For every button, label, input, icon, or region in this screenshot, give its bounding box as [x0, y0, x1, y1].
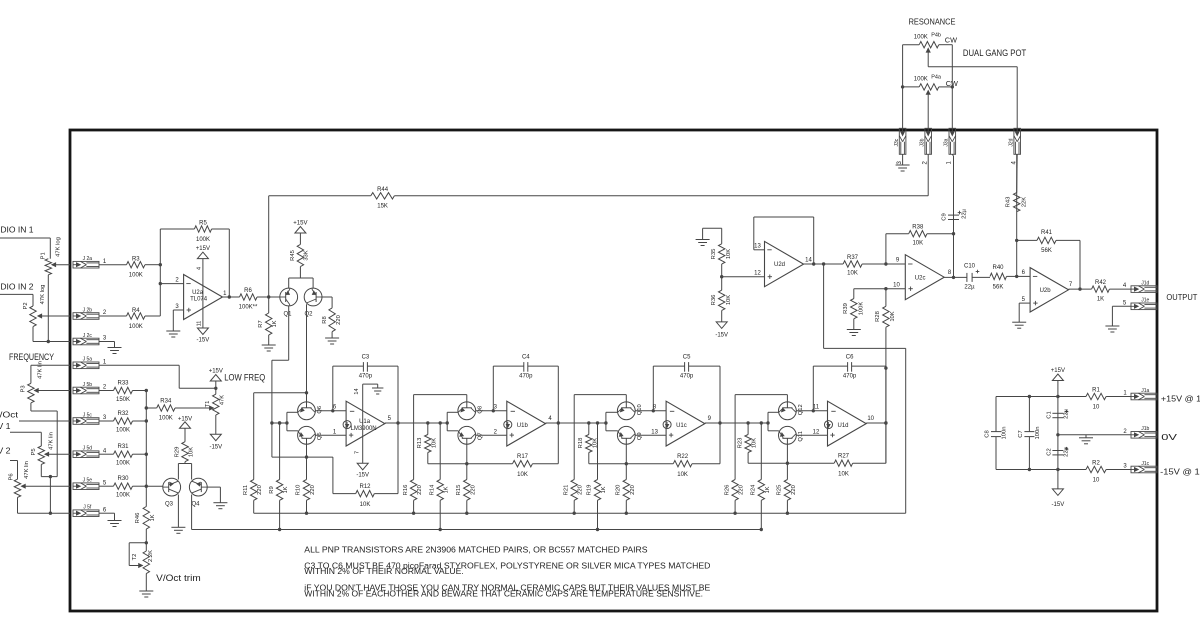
svg-text:10K: 10K: [838, 472, 849, 478]
svg-text:R39: R39: [843, 303, 849, 314]
svg-text:Q9: Q9: [637, 432, 643, 440]
svg-text:R8: R8: [322, 316, 328, 323]
svg-text:R32: R32: [117, 411, 129, 417]
svg-text:14: 14: [805, 258, 812, 264]
svg-text:C1: C1: [1046, 411, 1052, 418]
svg-text:U2d: U2d: [774, 262, 785, 268]
svg-text:C8: C8: [985, 430, 991, 437]
svg-text:Q11: Q11: [798, 431, 804, 442]
svg-text:10K: 10K: [517, 472, 528, 478]
svg-text:220: 220: [791, 485, 797, 495]
svg-text:1K: 1K: [765, 486, 771, 493]
svg-text:P5: P5: [31, 448, 37, 455]
svg-text:R42: R42: [1095, 280, 1107, 286]
svg-text:4: 4: [196, 267, 202, 270]
svg-text:10K: 10K: [431, 438, 437, 448]
svg-text:R25: R25: [777, 485, 783, 496]
svg-text:Q8: Q8: [477, 406, 483, 414]
svg-text:10: 10: [893, 282, 900, 288]
svg-text:470p: 470p: [519, 373, 533, 379]
svg-text:22µ: 22µ: [1063, 408, 1069, 418]
svg-text:100n: 100n: [1035, 427, 1041, 440]
svg-text:220: 220: [578, 485, 584, 495]
svg-text:R16: R16: [403, 485, 409, 496]
svg-text:U1a: U1a: [359, 419, 371, 425]
svg-text:10K: 10K: [677, 472, 688, 478]
svg-text:R29: R29: [175, 447, 181, 458]
svg-text:C3: C3: [362, 354, 370, 360]
svg-text:Q4: Q4: [191, 501, 200, 507]
svg-text:Q2: Q2: [304, 311, 313, 317]
svg-text:P4b: P4b: [931, 33, 941, 39]
svg-text:J 5e: J 5e: [83, 478, 93, 484]
svg-text:AUDIO IN 1: AUDIO IN 1: [0, 225, 34, 235]
svg-text:-15V: -15V: [356, 473, 369, 479]
svg-text:R31: R31: [117, 444, 129, 450]
svg-text:220: 220: [470, 485, 476, 495]
svg-text:J 5c: J 5c: [83, 412, 93, 418]
svg-text:J2d: J2d: [1009, 138, 1015, 146]
svg-text:R23: R23: [737, 438, 743, 449]
svg-text:470p: 470p: [359, 373, 373, 379]
svg-text:U2b: U2b: [1040, 288, 1052, 294]
svg-text:R45: R45: [290, 250, 296, 261]
svg-text:10K: 10K: [189, 447, 195, 457]
svg-text:1K: 1K: [283, 486, 289, 493]
svg-text:2.2K: 2.2K: [148, 550, 154, 562]
svg-text:22µ: 22µ: [962, 208, 968, 218]
svg-text:1K: 1K: [150, 514, 156, 521]
svg-text:J1a: J1a: [1141, 388, 1149, 394]
svg-text:1K: 1K: [1097, 297, 1104, 303]
svg-text:AUDIO IN 2: AUDIO IN 2: [0, 282, 34, 292]
svg-text:R38: R38: [912, 225, 924, 231]
svg-text:J 2b: J 2b: [83, 307, 93, 313]
svg-text:J1d: J1d: [1141, 281, 1149, 287]
svg-text:C9: C9: [942, 213, 948, 220]
svg-text:22K: 22K: [1022, 197, 1028, 207]
svg-text:Q6: Q6: [317, 406, 323, 414]
svg-text:OUTPUT: OUTPUT: [1166, 292, 1197, 302]
svg-text:100K: 100K: [129, 273, 143, 279]
svg-text:R2: R2: [1092, 461, 1100, 467]
svg-text:J 5a: J 5a: [83, 357, 93, 363]
svg-text:220: 220: [739, 485, 745, 495]
svg-text:100K**: 100K**: [239, 305, 258, 311]
svg-text:U1b: U1b: [517, 423, 529, 429]
svg-text:10K: 10K: [890, 311, 896, 321]
svg-text:J 5d: J 5d: [83, 446, 93, 452]
svg-text:Q3: Q3: [165, 501, 174, 507]
svg-text:100K: 100K: [116, 461, 130, 467]
svg-text:150K: 150K: [116, 397, 130, 403]
svg-text:13: 13: [651, 430, 658, 436]
svg-text:R11: R11: [243, 485, 249, 495]
svg-text:J3a: J3a: [944, 138, 950, 146]
svg-text:-15V: -15V: [209, 445, 222, 451]
svg-text:R3: R3: [132, 257, 140, 263]
svg-text:220: 220: [310, 485, 316, 495]
svg-text:ALL PNP TRANSISTORS ARE 2N3906: ALL PNP TRANSISTORS ARE 2N3906 MATCHED P…: [304, 546, 647, 555]
svg-text:J 5f: J 5f: [83, 505, 92, 511]
svg-text:P2: P2: [23, 302, 29, 309]
svg-text:100K: 100K: [116, 428, 130, 434]
svg-text:15K: 15K: [377, 203, 388, 209]
svg-text:10K: 10K: [360, 502, 371, 508]
svg-text:R7: R7: [258, 320, 264, 327]
svg-text:100K: 100K: [914, 35, 928, 41]
svg-text:13: 13: [754, 244, 761, 250]
svg-text:C2: C2: [1046, 448, 1052, 455]
svg-text:J 5b: J 5b: [83, 382, 93, 388]
svg-text:R44: R44: [377, 187, 389, 193]
svg-text:100K: 100K: [116, 493, 130, 499]
svg-text:R1: R1: [1092, 388, 1100, 394]
svg-text:R13: R13: [417, 438, 423, 449]
svg-text:+15V @ 15mA: +15V @ 15mA: [1161, 394, 1200, 404]
svg-text:56K: 56K: [993, 284, 1004, 290]
svg-text:J3b: J3b: [920, 138, 926, 146]
svg-text:Q1: Q1: [283, 311, 292, 317]
svg-text:1K: 1K: [272, 320, 278, 327]
svg-text:C10: C10: [964, 263, 976, 269]
svg-text:47K lin: 47K lin: [24, 461, 30, 479]
svg-text:TL074: TL074: [190, 297, 208, 303]
svg-text:100K: 100K: [196, 237, 210, 243]
svg-text:C5: C5: [683, 354, 691, 360]
svg-text:-15V @ 15mA: -15V @ 15mA: [1160, 467, 1200, 477]
svg-text:11: 11: [813, 405, 820, 411]
svg-text:47K: 47K: [220, 395, 226, 405]
svg-text:P6: P6: [8, 473, 14, 480]
svg-text:56K: 56K: [1041, 248, 1052, 254]
svg-text:22µ: 22µ: [1063, 446, 1069, 456]
svg-text:R40: R40: [992, 265, 1004, 271]
svg-text:220: 220: [336, 315, 342, 325]
svg-text:12: 12: [813, 430, 820, 436]
svg-text:CW: CW: [945, 36, 957, 45]
svg-text:-15V: -15V: [197, 338, 210, 344]
svg-text:P1: P1: [40, 252, 46, 259]
svg-text:FREQUENCY: FREQUENCY: [9, 352, 54, 362]
svg-text:10K: 10K: [592, 438, 598, 448]
svg-text:R20: R20: [616, 485, 622, 496]
svg-text:R35: R35: [711, 249, 717, 260]
svg-text:R43: R43: [1006, 197, 1012, 208]
svg-text:P4a: P4a: [931, 75, 942, 81]
svg-text:P3: P3: [21, 385, 27, 392]
svg-text:WITHIN 2% OF THEIR NORMAL VALU: WITHIN 2% OF THEIR NORMAL VALUE.: [304, 567, 464, 576]
svg-text:470p: 470p: [680, 373, 694, 379]
svg-text:47K log: 47K log: [40, 285, 46, 305]
svg-text:U1c: U1c: [676, 423, 687, 429]
svg-text:C7: C7: [1018, 430, 1024, 437]
svg-text:RESONANCE: RESONANCE: [909, 17, 956, 27]
svg-text:J 2c: J 2c: [83, 333, 93, 339]
svg-text:R34: R34: [160, 398, 172, 404]
svg-text:100K: 100K: [159, 416, 173, 422]
svg-text:100K: 100K: [859, 302, 865, 316]
svg-text:0V: 0V: [1161, 432, 1177, 442]
svg-text:10K: 10K: [847, 271, 858, 277]
svg-text:LM3900N: LM3900N: [351, 426, 377, 432]
svg-text:CV 2: CV 2: [0, 446, 11, 456]
svg-text:+15V: +15V: [1051, 368, 1065, 374]
svg-text:R5: R5: [199, 221, 207, 227]
svg-text:R10: R10: [296, 485, 302, 496]
svg-text:Q7: Q7: [477, 432, 483, 440]
svg-text:R17: R17: [517, 454, 529, 460]
svg-text:R9: R9: [269, 486, 275, 493]
svg-text:J1e: J1e: [1141, 298, 1149, 304]
svg-text:220: 220: [417, 485, 423, 495]
svg-text:-15V: -15V: [715, 333, 728, 339]
svg-text:J3c: J3c: [894, 138, 900, 146]
svg-text:Q12: Q12: [798, 404, 804, 415]
svg-text:J1c: J1c: [1141, 461, 1149, 467]
svg-text:47K lin: 47K lin: [48, 432, 54, 450]
svg-text:10K: 10K: [752, 438, 758, 448]
svg-text:-15V: -15V: [1052, 502, 1065, 508]
svg-text:1K: 1K: [601, 486, 607, 493]
svg-text:R37: R37: [847, 255, 859, 261]
svg-text:R4: R4: [132, 308, 140, 314]
svg-text:10K: 10K: [912, 241, 923, 247]
svg-text:R24: R24: [751, 484, 757, 495]
svg-text:DUAL GANG POT: DUAL GANG POT: [963, 48, 1027, 58]
svg-text:T2: T2: [132, 554, 138, 561]
svg-text:10K: 10K: [726, 295, 732, 305]
svg-text:WITHIN 2% OF EACHOTHER AND BEW: WITHIN 2% OF EACHOTHER AND BEWARE THAT C…: [304, 589, 703, 598]
svg-text:22µ: 22µ: [964, 285, 975, 291]
svg-text:J 2a: J 2a: [83, 256, 93, 262]
svg-text:+15V: +15V: [293, 221, 307, 227]
svg-text:U2c: U2c: [915, 275, 926, 281]
svg-text:+15V: +15V: [196, 246, 210, 252]
svg-text:R14: R14: [429, 484, 435, 495]
svg-text:R46: R46: [135, 513, 141, 524]
svg-text:CV 1: CV 1: [0, 421, 11, 431]
svg-text:U1d: U1d: [838, 423, 849, 429]
svg-text:R28: R28: [875, 311, 881, 322]
svg-text:R33: R33: [117, 380, 129, 386]
svg-text:10: 10: [867, 416, 874, 422]
svg-text:14: 14: [354, 388, 360, 394]
svg-text:R21: R21: [563, 485, 569, 496]
svg-text:470p: 470p: [843, 373, 857, 379]
svg-text:100K: 100K: [914, 77, 928, 83]
svg-text:220: 220: [257, 485, 263, 495]
svg-text:R18: R18: [578, 438, 584, 449]
svg-text:V/Oct trim: V/Oct trim: [156, 573, 201, 583]
svg-text:10K: 10K: [726, 249, 732, 259]
svg-text:R6: R6: [244, 288, 252, 294]
svg-text:R15: R15: [456, 485, 462, 496]
svg-text:R19: R19: [587, 485, 593, 496]
svg-text:10: 10: [1093, 478, 1100, 484]
svg-text:R12: R12: [359, 484, 371, 490]
svg-text:R26: R26: [724, 485, 730, 496]
svg-text:12: 12: [754, 271, 761, 277]
svg-text:10: 10: [1093, 405, 1100, 411]
svg-text:100n: 100n: [1002, 427, 1008, 440]
svg-text:33K: 33K: [304, 250, 310, 260]
svg-text:V/Oct: V/Oct: [0, 410, 19, 420]
svg-text:R41: R41: [1041, 230, 1053, 236]
svg-text:R22: R22: [677, 454, 689, 460]
svg-text:U2a: U2a: [192, 290, 204, 296]
svg-text:220: 220: [630, 485, 636, 495]
svg-text:C4: C4: [522, 354, 530, 360]
svg-text:7: 7: [355, 451, 361, 454]
svg-text:+15V: +15V: [209, 368, 223, 374]
svg-text:R30: R30: [117, 476, 129, 482]
svg-text:T1: T1: [205, 401, 211, 408]
svg-text:R36: R36: [711, 295, 717, 306]
svg-text:Q10: Q10: [637, 404, 643, 415]
svg-text:J1b: J1b: [1141, 426, 1149, 432]
svg-text:1K: 1K: [444, 486, 450, 493]
svg-text:11: 11: [196, 321, 202, 327]
svg-text:LOW FREQ: LOW FREQ: [224, 373, 265, 383]
svg-text:100K: 100K: [129, 324, 143, 330]
svg-text:Q5: Q5: [317, 432, 323, 440]
svg-text:47K log: 47K log: [56, 237, 62, 257]
svg-text:C6: C6: [846, 354, 854, 360]
svg-text:47K lin: 47K lin: [37, 361, 43, 379]
svg-text:R27: R27: [838, 454, 850, 460]
